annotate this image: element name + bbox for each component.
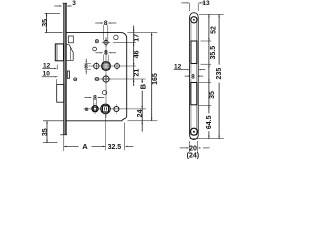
faceplate outline (stadium) [190, 13, 199, 140]
svg-text:(24): (24) [187, 153, 199, 160]
latch bolt bevel (behind faceplate) [66, 45, 73, 61]
front guide block at case front [68, 36, 73, 43]
svg-text:32.5: 32.5 [108, 144, 122, 151]
top screw hole [191, 17, 197, 23]
latch bolt head [55, 44, 63, 61]
cylinder row: screw eyelet [95, 77, 98, 80]
svg-text:8: 8 [191, 74, 195, 81]
lower row: left square hub [92, 106, 98, 112]
spring detail at case front [67, 71, 69, 78]
follower row: left fixing hole [94, 63, 99, 68]
svg-text:3: 3 [72, 0, 76, 7]
svg-text:35.5: 35.5 [210, 46, 217, 60]
svg-text:8: 8 [84, 64, 88, 71]
deadbolt cutout [191, 83, 197, 105]
svg-text:64.5: 64.5 [206, 115, 213, 129]
lower row: right fixing hole [114, 107, 119, 112]
dim 35 top-left [46, 13, 48, 32]
dim 8 vertical (follower square height) [85, 63, 91, 65]
dim 3 (faceplate thickness) [54, 5, 60, 7]
small hole below hub [93, 47, 97, 51]
B / 24 dimension line [141, 79, 143, 132]
cylinder row: screw on faceplate [74, 78, 77, 81]
extension lines [199, 13, 224, 15]
dim 20 / (24) bottom [188, 141, 190, 153]
follower row: right fixing hole [115, 64, 120, 69]
svg-text:35: 35 [42, 128, 49, 136]
deadbolt (thrown) [57, 84, 64, 102]
lock case outline [66, 33, 127, 121]
bottom screw hole [190, 128, 197, 135]
svg-text:46: 46 [134, 50, 141, 58]
lower row: far-left screw eyelet [85, 108, 88, 111]
svg-text:21: 21 [134, 69, 141, 77]
hub row: hub w/ crosshair [104, 40, 108, 44]
chain line 52/35.5/35/64.5 [208, 14, 210, 138]
cylinder row: hole w/ crosshair [103, 76, 109, 82]
case-top level tick (35 dim) [45, 32, 63, 34]
svg-text:8: 8 [104, 20, 108, 27]
vertical centerline of holes [105, 37, 107, 118]
svg-text:52: 52 [210, 26, 217, 34]
faceplate (side view, 2 vertical lines with end caps) [64, 3, 65, 135]
dim 13 (top width) [189, 3, 191, 11]
svg-text:20: 20 [189, 145, 197, 152]
svg-text:17: 17 [134, 34, 141, 42]
latch cutout [191, 41, 197, 64]
dim 8 (cutout width) [185, 75, 189, 77]
svg-text:35: 35 [209, 91, 216, 99]
cylinder row centerline to B-line [94, 78, 146, 80]
svg-text:8: 8 [104, 50, 108, 57]
dim 35 bottom-left [46, 121, 48, 143]
svg-text:13: 13 [202, 0, 210, 7]
svg-text:165: 165 [152, 73, 159, 85]
small hole above lower follower [102, 90, 106, 94]
lower follower (WC square hub) [101, 104, 111, 114]
chain line 17/46/21 [133, 26, 135, 86]
faceplate inner fold lines [190, 17, 192, 136]
svg-text:A: A [82, 142, 88, 151]
extension lines [127, 32, 157, 34]
hub row: screw eyelet [95, 40, 98, 43]
lower follower row centerline [84, 108, 147, 110]
follower (square spindle hub) [101, 61, 110, 70]
svg-text:24: 24 [137, 109, 144, 117]
hub row: upper-right hole [114, 35, 118, 39]
svg-text:35: 35 [42, 19, 49, 27]
165 overall dimension [151, 33, 153, 121]
svg-text:B: B [139, 83, 148, 89]
svg-text:235: 235 [216, 68, 223, 80]
235 overall [218, 14, 220, 138]
follower row centerline [89, 65, 136, 67]
